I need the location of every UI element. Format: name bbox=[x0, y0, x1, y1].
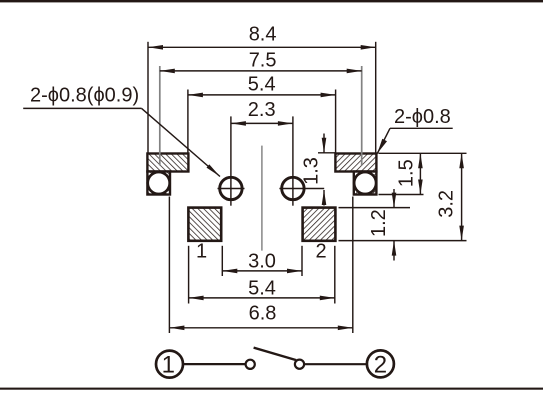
svg-text:2: 2 bbox=[374, 351, 387, 378]
dimension 6.8 bbox=[169, 197, 352, 334]
svg-text:1: 1 bbox=[196, 240, 207, 262]
right crosshair hole bbox=[279, 116, 324, 205]
wire left bbox=[184, 363, 245, 365]
svg-text:1.5: 1.5 bbox=[396, 159, 418, 187]
svg-text:3.2: 3.2 bbox=[436, 190, 458, 218]
svg-text:8.4: 8.4 bbox=[249, 24, 277, 46]
top frame border bbox=[0, 0, 543, 2]
bottom frame border bbox=[0, 388, 543, 390]
hole in upper-right pad bbox=[354, 172, 376, 194]
left crosshair hole bbox=[218, 116, 245, 205]
terminal pad 2 (hatched square) bbox=[303, 208, 336, 241]
dimension 1.5 bbox=[379, 153, 467, 194]
label 2-phi0.8(phi0.9) with leader bbox=[23, 85, 220, 177]
label 2-phi0.8 with leader bbox=[377, 106, 452, 154]
dimension 5.4 top bbox=[188, 73, 336, 153]
dimension 5.4 bottom bbox=[189, 246, 335, 304]
vertical centerline bbox=[261, 146, 263, 251]
svg-text:5.4: 5.4 bbox=[248, 73, 276, 95]
dimension 2.3 bbox=[231, 99, 293, 124]
wire right bbox=[304, 363, 366, 365]
dimension 1.2 bbox=[339, 189, 467, 261]
hole in upper-left pad bbox=[148, 172, 170, 194]
pad upper-left hatched rectangle bbox=[147, 154, 188, 172]
svg-text:5.4: 5.4 bbox=[248, 277, 276, 299]
svg-text:2.3: 2.3 bbox=[248, 99, 276, 121]
svg-text:1.2: 1.2 bbox=[368, 209, 390, 237]
dimension 3.2 bbox=[436, 153, 462, 240]
svg-text:3.0: 3.0 bbox=[248, 251, 276, 273]
svg-text:2: 2 bbox=[315, 240, 326, 262]
svg-text:2-ϕ0.8: 2-ϕ0.8 bbox=[394, 106, 451, 128]
dimension 3.0 bbox=[222, 246, 302, 276]
pad upper-right hatched rectangle bbox=[335, 154, 376, 172]
terminal pad 1 (hatched square) bbox=[188, 208, 221, 241]
pad upper-left hole box bbox=[147, 172, 170, 195]
svg-text:7.5: 7.5 bbox=[249, 49, 277, 71]
pad upper-right hole box bbox=[354, 172, 377, 195]
svg-text:1.3: 1.3 bbox=[301, 157, 323, 185]
switch lever bbox=[254, 348, 297, 361]
contact circle left bbox=[246, 360, 255, 369]
dimension 7.5 bbox=[160, 49, 362, 165]
svg-text:1: 1 bbox=[162, 352, 175, 379]
schematic terminal 1 circle bbox=[156, 351, 183, 379]
contact circle right bbox=[295, 360, 304, 369]
svg-text:6.8: 6.8 bbox=[249, 302, 277, 324]
svg-text:2-ϕ0.8(ϕ0.9): 2-ϕ0.8(ϕ0.9) bbox=[30, 85, 139, 107]
dimension 8.4 bbox=[148, 24, 376, 154]
dimension 1.3 bbox=[301, 134, 336, 206]
schematic terminal 2 circle bbox=[367, 350, 394, 378]
